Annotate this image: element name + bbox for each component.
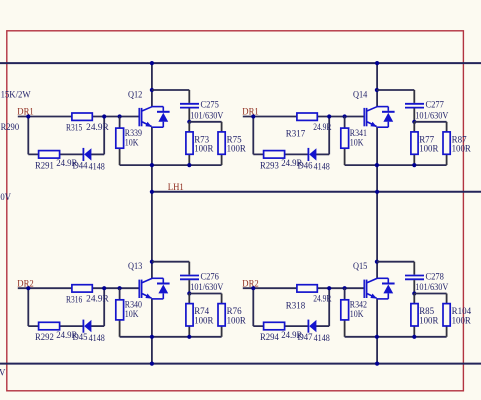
svg-text:R290: R290 — [1, 122, 20, 132]
junction lower-branch riser top — [327, 286, 331, 290]
diode D47 4148 — [307, 320, 309, 333]
diode D45 4148 — [82, 320, 84, 333]
svg-text:DR1: DR1 — [242, 107, 259, 117]
svg-text:24.9R: 24.9R — [86, 294, 109, 304]
resistor R75 100R — [221, 122, 223, 132]
wire snubber top row — [189, 293, 221, 295]
wire DR2 gate row — [18, 287, 139, 289]
svg-text:R315: R315 — [66, 123, 83, 133]
junction snubber top node — [412, 120, 416, 124]
junction lower-branch riser top — [102, 286, 106, 290]
svg-text:101/630V: 101/630V — [415, 282, 448, 292]
diode Q13 freewheel — [162, 278, 164, 282]
wire emitter row — [345, 336, 447, 338]
junction top bus / Q12 collector — [150, 61, 154, 65]
wire emitter-to-LH1 trunk right — [376, 127, 378, 279]
svg-text:D44: D44 — [73, 161, 88, 171]
svg-text:100R: 100R — [194, 144, 214, 154]
svg-text:R293: R293 — [260, 161, 279, 171]
wire DR2 gate row — [243, 287, 364, 289]
resistor R85 100R — [413, 294, 415, 304]
wire lower branch right + riser — [316, 325, 329, 327]
svg-text:C277: C277 — [426, 100, 445, 110]
svg-text:DR2: DR2 — [242, 278, 259, 288]
svg-text:10K: 10K — [125, 137, 139, 147]
junction snubber bottom node — [187, 335, 191, 339]
junction snubber top node — [187, 291, 191, 295]
capacitor C277 101/630V — [377, 89, 414, 91]
junction DR2 input node — [251, 286, 255, 290]
svg-text:C276: C276 — [201, 271, 220, 281]
junction gate node — [343, 286, 347, 290]
diode Q15 freewheel — [387, 278, 389, 282]
resistor R74 100R — [188, 294, 190, 304]
svg-text:Q12: Q12 — [128, 89, 143, 99]
junction bottom bus / right trunk — [375, 362, 379, 366]
resistor R315 24.9R (upper) — [72, 113, 92, 120]
wire lower branch left — [28, 153, 83, 155]
svg-text:DR2: DR2 — [17, 278, 34, 288]
svg-text:R292: R292 — [35, 332, 54, 342]
junction snubber bottom node — [412, 163, 416, 167]
svg-text:15K/2W: 15K/2W — [1, 89, 31, 99]
resistor R317 24.9R (upper) — [297, 113, 317, 120]
wire lower branch right + riser — [91, 325, 104, 327]
svg-text:0V: 0V — [0, 367, 6, 377]
wire emitter-to-LH1 trunk left — [151, 127, 153, 279]
wire snubber top row — [189, 121, 221, 123]
resistor R291 24.9R (lower) — [39, 151, 60, 159]
wire DR1 gate row — [18, 116, 139, 118]
wire emitter row — [120, 336, 222, 338]
capacitor C278 101/630V — [377, 261, 414, 263]
wire left drop to lower branch — [252, 117, 254, 155]
junction snubber bottom node — [412, 335, 416, 339]
svg-text:24.9R: 24.9R — [313, 294, 332, 304]
svg-text:100R: 100R — [227, 144, 247, 154]
resistor R318 24.9R (upper) — [297, 285, 317, 292]
junction LH1 / left trunk — [150, 190, 154, 194]
junction snubber top node — [187, 120, 191, 124]
capacitor C276 101/630V — [152, 261, 189, 263]
svg-text:4148: 4148 — [314, 162, 331, 172]
svg-text:R341: R341 — [350, 128, 368, 138]
resistor R341 10K gate resistor — [344, 117, 346, 129]
junction collector node — [150, 88, 154, 92]
svg-text:R291: R291 — [35, 161, 54, 171]
resistor R293 24.9R (lower) — [264, 151, 285, 159]
resistor R87 100R — [446, 122, 448, 132]
diode D46 4148 — [307, 148, 309, 161]
svg-text:24.9R: 24.9R — [86, 122, 109, 132]
wire emitter-to-0V trunk left — [151, 298, 153, 363]
resistor R292 24.9R (lower) — [39, 322, 60, 330]
wire left drop to lower branch — [27, 117, 29, 155]
svg-text:Q14: Q14 — [353, 89, 368, 99]
svg-text:10K: 10K — [125, 309, 139, 319]
wire snubber top row — [414, 293, 446, 295]
svg-text:4148: 4148 — [89, 162, 106, 172]
svg-text:R318: R318 — [286, 300, 306, 310]
junction collector node — [150, 260, 154, 264]
svg-text:101/630V: 101/630V — [190, 110, 223, 120]
wire LH1 mid bus — [152, 191, 481, 193]
junction gate node — [118, 286, 122, 290]
svg-text:10K: 10K — [350, 309, 364, 319]
junction gate node — [343, 114, 347, 118]
junction snubber bottom node — [187, 163, 191, 167]
svg-text:R317: R317 — [286, 129, 306, 139]
junction emitter node — [150, 335, 154, 339]
svg-text:LH1: LH1 — [168, 182, 184, 192]
diode Q14 freewheel — [387, 107, 389, 111]
resistor R316 24.9R (upper) — [72, 285, 92, 292]
junction LH1 / right trunk — [375, 190, 379, 194]
svg-text:100R: 100R — [194, 315, 214, 325]
svg-text:R340: R340 — [125, 300, 143, 310]
svg-text:24.9R: 24.9R — [313, 122, 332, 132]
junction DR1 input node — [251, 114, 255, 118]
wire collector trunk top left — [151, 63, 153, 107]
junction collector node — [375, 88, 379, 92]
svg-text:DR1: DR1 — [17, 107, 34, 117]
svg-text:D45: D45 — [73, 332, 88, 342]
wire emitter row — [345, 164, 447, 166]
wire emitter-to-0V trunk right — [376, 298, 378, 363]
junction emitter node — [150, 163, 154, 167]
junction gate node — [118, 114, 122, 118]
svg-text:10K: 10K — [350, 137, 364, 147]
wire top +300V bus — [0, 62, 481, 64]
resistor R339 10K gate resistor — [119, 117, 121, 129]
resistor R294 24.9R (lower) — [264, 322, 285, 330]
junction DR1 input node — [26, 114, 30, 118]
junction collector node — [375, 260, 379, 264]
wire bottom 0V bus — [0, 363, 481, 365]
junction snubber top node — [412, 291, 416, 295]
svg-text:C278: C278 — [426, 271, 445, 281]
junction lower-branch riser top — [102, 114, 106, 118]
svg-text:R316: R316 — [66, 294, 83, 304]
wire collector trunk top right — [376, 63, 378, 107]
svg-text:Q13: Q13 — [128, 261, 143, 271]
svg-text:101/630V: 101/630V — [190, 282, 223, 292]
svg-text:100R: 100R — [452, 315, 472, 325]
svg-text:0V: 0V — [0, 192, 11, 202]
diode Q12 freewheel — [162, 107, 164, 111]
resistor R104 100R — [446, 294, 448, 304]
svg-text:R339: R339 — [125, 128, 143, 138]
svg-text:D46: D46 — [298, 161, 313, 171]
wire DR1 gate row — [243, 116, 364, 118]
resistor R342 10K gate resistor — [344, 288, 346, 300]
junction bottom bus / left trunk — [150, 362, 154, 366]
junction top bus / Q14 collector — [375, 61, 379, 65]
junction emitter node — [375, 163, 379, 167]
wire left drop to lower branch — [27, 288, 29, 326]
resistor R73 100R — [188, 122, 190, 132]
diode D44 4148 — [82, 148, 84, 161]
junction emitter node — [375, 335, 379, 339]
resistor R76 100R — [221, 294, 223, 304]
svg-text:D47: D47 — [298, 332, 313, 342]
wire lower branch left — [28, 325, 83, 327]
svg-text:100R: 100R — [419, 144, 439, 154]
wire lower branch right + riser — [91, 153, 104, 155]
wire left drop to lower branch — [252, 288, 254, 326]
svg-text:Q15: Q15 — [353, 261, 368, 271]
svg-text:100R: 100R — [419, 315, 439, 325]
svg-text:R342: R342 — [350, 300, 368, 310]
junction DR2 input node — [26, 286, 30, 290]
svg-text:R294: R294 — [260, 332, 279, 342]
wire lower branch right + riser — [316, 153, 329, 155]
svg-text:4148: 4148 — [314, 333, 331, 343]
svg-text:C275: C275 — [201, 100, 220, 110]
resistor R340 10K gate resistor — [119, 288, 121, 300]
capacitor C275 101/630V — [152, 89, 189, 91]
svg-text:100R: 100R — [227, 315, 247, 325]
svg-text:4148: 4148 — [89, 333, 106, 343]
wire lower branch left — [253, 153, 308, 155]
resistor R77 100R — [413, 122, 415, 132]
junction lower-branch riser top — [327, 114, 331, 118]
wire emitter row — [120, 164, 222, 166]
svg-text:100R: 100R — [452, 144, 472, 154]
wire snubber top row — [414, 121, 446, 123]
svg-text:101/630V: 101/630V — [415, 110, 448, 120]
wire lower branch left — [253, 325, 308, 327]
